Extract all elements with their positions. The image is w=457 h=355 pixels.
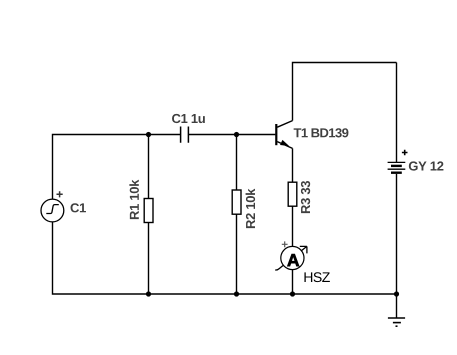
battery GY plate short 1	[391, 165, 402, 167]
generator C1 waveform symbol	[46, 205, 59, 214]
wire W5: capacitor right to base node	[188, 134, 236, 136]
wire W8: R2 bottom	[236, 214, 238, 294]
battery GY plate long 1	[388, 161, 406, 163]
ground symbol line 3	[396, 325, 398, 327]
node junction: R2 bottom	[234, 291, 239, 296]
label C1 (generator)	[71, 203, 86, 212]
label R1 10k	[129, 180, 139, 220]
battery GY plate long 2	[388, 168, 406, 170]
ammeter letter A	[287, 254, 299, 266]
resistor R1 body	[144, 199, 153, 223]
ammeter HSZ circle	[281, 246, 304, 269]
transistor T1 emitter arrow	[281, 141, 288, 146]
transistor T1 base bar	[275, 124, 277, 145]
wire W7: R2 top	[236, 135, 238, 191]
generator C1 circle	[41, 199, 64, 222]
wire W6: base node to transistor base	[237, 134, 276, 136]
label GY 12	[409, 161, 444, 170]
label T1 BD139	[294, 128, 349, 137]
resistor R2 body	[232, 190, 241, 214]
wire W9: collector up and top rail to battery	[293, 63, 397, 121]
transistor T1 collector diagonal	[277, 121, 292, 128]
label R2 10k	[246, 189, 256, 229]
wire W1: left rail top and top horizontal to capacitor	[53, 135, 181, 200]
battery GY plate short 2	[391, 171, 402, 173]
transistor T1 emitter diagonal	[277, 142, 292, 149]
generator C1 plus sign	[57, 191, 63, 197]
node junction: R1 bottom	[146, 291, 151, 296]
wire W15: ground stub	[396, 294, 398, 318]
ground symbol line 2	[393, 322, 401, 324]
label HSZ	[304, 272, 329, 282]
resistor R3 body	[288, 182, 297, 206]
wire W13: battery top	[396, 63, 398, 163]
wire W14: battery bottom	[396, 174, 398, 294]
wire W10: emitter down to R3	[292, 148, 294, 182]
wire W12: ammeter bottom	[292, 270, 294, 294]
ammeter diagonal arrow (needle behind circle)	[275, 246, 307, 270]
ground symbol line 1	[388, 317, 405, 319]
node junction: ammeter bottom	[290, 291, 295, 296]
capacitor C1 plates	[181, 127, 189, 143]
node junction: R1 top	[146, 132, 151, 137]
node junction: R2 top	[234, 132, 239, 137]
wire W4: R1 bottom	[148, 223, 150, 295]
node junction: battery bottom	[394, 291, 399, 296]
wire W3: R1 top	[148, 135, 150, 199]
ammeter plus sign	[282, 241, 288, 247]
label R3 33	[301, 181, 310, 213]
label C1 1u	[172, 114, 205, 123]
wire W11: R3 bottom to ammeter	[292, 206, 294, 246]
wire W2: left rail bottom and bottom rail	[53, 222, 397, 294]
battery plus sign	[402, 150, 408, 156]
